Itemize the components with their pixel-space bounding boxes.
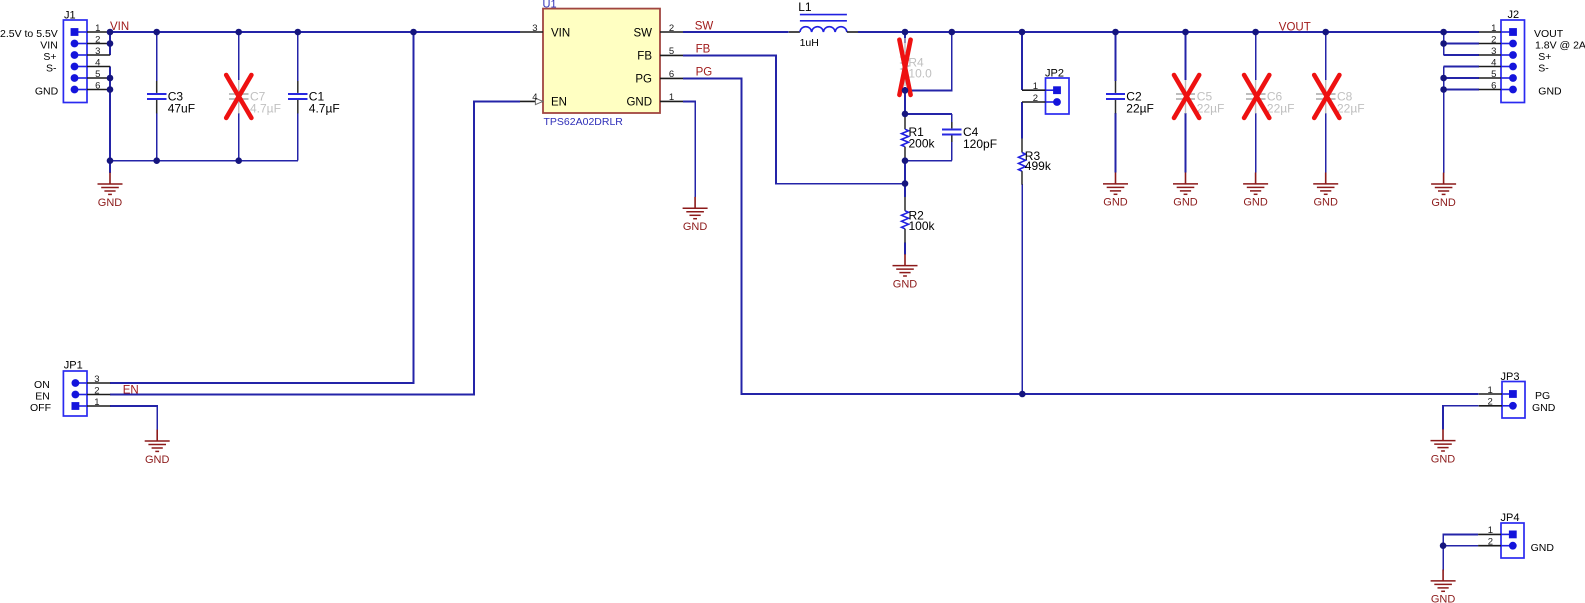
svg-text:4.7µF: 4.7µF <box>309 101 340 115</box>
ground C8 <box>1313 173 1338 209</box>
svg-text:S-: S- <box>1538 63 1549 75</box>
wire JP2 pin2 to R3 <box>1021 102 1023 139</box>
wire R4 top segment <box>904 32 906 43</box>
junction node VOUT at JP2 branch <box>1019 29 1026 36</box>
connector J1 <box>63 10 87 103</box>
ground JP4 <box>1431 570 1456 603</box>
ground J2 <box>1431 173 1456 209</box>
JP4 pin numbers <box>1488 525 1493 547</box>
svg-text:2.5V to 5.5V: 2.5V to 5.5V <box>0 28 58 40</box>
svg-text:J2: J2 <box>1508 9 1520 21</box>
svg-text:GND: GND <box>35 86 59 98</box>
svg-text:EN: EN <box>551 97 567 109</box>
svg-text:1.8V @ 2A: 1.8V @ 2A <box>1535 40 1585 52</box>
wire VOUT rail L1 to J2 <box>858 31 1479 33</box>
wire J2 pins 4-6 tie vertical to ground <box>1443 67 1445 173</box>
wire SW net U1 to L1 <box>683 31 789 33</box>
ground C6 <box>1243 173 1268 209</box>
capacitor C8 (DNP) <box>1316 80 1365 115</box>
svg-text:SW: SW <box>695 20 714 32</box>
svg-text:JP2: JP2 <box>1045 67 1064 79</box>
svg-text:U1: U1 <box>543 0 557 11</box>
junction node VIN at C1 <box>295 29 302 36</box>
capacitor C2 <box>1106 81 1154 115</box>
svg-text:4: 4 <box>532 92 537 103</box>
wire EN net JP1 pin2 to U1 EN <box>110 101 520 394</box>
svg-text:47uF: 47uF <box>168 101 195 115</box>
svg-text:2: 2 <box>1488 537 1493 548</box>
svg-text:VOUT: VOUT <box>1534 28 1564 40</box>
svg-text:1: 1 <box>94 397 99 408</box>
junction node R1 top <box>902 111 909 118</box>
wire J2 pin2 link <box>1444 43 1479 45</box>
svg-text:100k: 100k <box>909 219 936 233</box>
op-amp U1 TPS62A02DRLR body <box>543 0 661 128</box>
JP3 pin stubs <box>1479 394 1502 406</box>
JP3 side labels <box>1532 390 1556 414</box>
wire R2 top <box>904 184 906 197</box>
junction node VOUT at C6 <box>1252 29 1259 36</box>
wire PG net U1 to JP3 <box>683 78 1479 394</box>
svg-text:JP1: JP1 <box>64 359 83 371</box>
junction node J2 pin5 <box>1440 75 1447 82</box>
svg-text:EN: EN <box>123 384 139 396</box>
capacitor C1 <box>288 81 340 115</box>
wire C4 bottom drop <box>951 142 953 161</box>
junction node J1 pin5 <box>107 75 114 82</box>
svg-text:1: 1 <box>95 23 100 34</box>
U1 EN clock triangle <box>535 98 543 104</box>
U1 pin stubs <box>520 32 683 101</box>
connector JP2 <box>1045 67 1069 114</box>
wire JP3 pin2 to ground <box>1443 406 1479 430</box>
svg-text:5: 5 <box>95 69 100 80</box>
junction node input ground rail at C3 <box>153 157 160 164</box>
svg-text:499k: 499k <box>1025 159 1052 173</box>
svg-text:22µF: 22µF <box>1337 101 1365 115</box>
J1 side labels <box>0 28 59 98</box>
wire C5 top drop <box>1185 32 1187 80</box>
J1 pin stubs <box>87 32 110 90</box>
svg-text:JP4: JP4 <box>1501 512 1520 524</box>
connector JP3 <box>1501 371 1526 418</box>
svg-text:3: 3 <box>94 374 99 385</box>
wire C7 top drop <box>238 32 240 80</box>
svg-text:22µF: 22µF <box>1267 101 1295 115</box>
svg-text:1: 1 <box>1488 385 1493 396</box>
JP1 side labels <box>30 379 51 414</box>
wire J1 pins 1-3 tie vertical <box>109 32 111 55</box>
svg-text:1: 1 <box>1033 81 1038 92</box>
junction node VIN at C7 <box>235 29 242 36</box>
JP2 pin numbers <box>1033 81 1038 104</box>
svg-text:6: 6 <box>1491 80 1496 91</box>
resistor R1 <box>902 114 936 161</box>
U1 pin numbers <box>532 23 674 103</box>
wire R1 to FB node <box>904 161 906 184</box>
red X over C5 <box>1174 75 1199 118</box>
junction node input ground rail at C7 <box>235 157 242 164</box>
junction node VIN at J1 pin1 <box>107 29 114 36</box>
svg-text:GND: GND <box>1531 542 1555 554</box>
capacitor C4 <box>942 122 997 151</box>
net label FB <box>696 44 711 56</box>
wire U1 GND pin to ground <box>683 101 695 197</box>
resistor R3 <box>1019 139 1052 185</box>
junction node VOUT at R4 top <box>902 29 909 36</box>
wire R4 bypass <box>905 32 952 90</box>
junction node VOUT at C5 <box>1182 29 1189 36</box>
junction node VOUT at bypass <box>949 29 956 36</box>
red X over R4 <box>899 40 910 95</box>
wire JP4 pin1 link <box>1443 534 1478 545</box>
svg-text:J1: J1 <box>64 10 76 22</box>
junction node J2 pin2 <box>1440 40 1447 47</box>
wire J2 pin6 link <box>1444 89 1479 91</box>
svg-text:2: 2 <box>1488 397 1493 408</box>
wire R4 bottom to feedback node <box>904 87 906 114</box>
svg-text:PG: PG <box>1535 390 1550 402</box>
svg-text:VIN: VIN <box>551 28 570 40</box>
net label PG <box>696 67 713 79</box>
junction node VIN at C3 <box>153 29 160 36</box>
JP1 pin stubs <box>87 383 110 406</box>
svg-text:GND: GND <box>1532 402 1556 414</box>
wire FB net U1 to divider <box>683 55 905 183</box>
JP4 pin stubs <box>1478 534 1501 545</box>
wire JP1 pin1 OFF to ground <box>110 406 157 430</box>
svg-text:S+: S+ <box>1538 51 1551 63</box>
wire JP4 pin2 to ground <box>1443 546 1478 571</box>
svg-text:2: 2 <box>94 385 99 396</box>
svg-text:TPS62A02DRLR: TPS62A02DRLR <box>544 116 624 128</box>
wire C3 top drop <box>156 32 158 81</box>
svg-text:EN: EN <box>35 391 50 403</box>
svg-text:10.0: 10.0 <box>908 67 932 81</box>
inductor L1 <box>789 0 858 49</box>
svg-text:PG: PG <box>635 74 652 86</box>
J1 pin numbers <box>95 23 100 92</box>
wire R2 bottom to ground <box>904 243 906 255</box>
svg-text:SW: SW <box>633 28 652 40</box>
svg-text:OFF: OFF <box>30 402 51 414</box>
wire C4 top drop <box>951 114 953 122</box>
U1 pin names <box>551 28 652 109</box>
capacitor C5 (DNP) <box>1176 80 1225 115</box>
wire R1 C4 bottom tie <box>905 160 952 162</box>
svg-text:6: 6 <box>669 69 674 80</box>
svg-text:GND: GND <box>626 97 652 109</box>
wire J1 ground drop <box>109 161 111 173</box>
svg-text:3: 3 <box>532 23 537 34</box>
wire C2 top drop <box>1115 32 1117 81</box>
JP2 pin stubs <box>1022 90 1046 102</box>
svg-text:ON: ON <box>34 379 50 391</box>
J2 side labels <box>1534 28 1585 98</box>
svg-text:2: 2 <box>95 34 100 45</box>
JP3 pin numbers <box>1488 385 1493 408</box>
svg-text:S-: S- <box>46 63 57 75</box>
svg-text:5: 5 <box>1491 69 1496 80</box>
net label VOUT <box>1279 22 1311 34</box>
wire VIN rail from J1 to U1 <box>110 31 520 33</box>
wire C2 bottom drop <box>1115 113 1117 173</box>
net label SW <box>695 20 714 32</box>
svg-text:4: 4 <box>95 57 100 68</box>
ground JP3 <box>1431 429 1456 465</box>
svg-text:6: 6 <box>95 80 100 91</box>
JP1 pin numbers <box>94 374 99 408</box>
wire C5 bottom drop <box>1185 113 1187 173</box>
wire JP2 pin1 to VOUT rail <box>1021 32 1023 90</box>
wire C1 top drop <box>297 32 299 81</box>
svg-text:5: 5 <box>669 46 674 57</box>
resistor R4 (DNP) <box>902 38 933 86</box>
wire J2 pin4 link <box>1444 66 1479 68</box>
capacitor C6 (DNP) <box>1246 80 1295 115</box>
junction node R4 bottom <box>902 87 909 94</box>
wire C1 bottom drop <box>297 113 299 161</box>
junction node J2 pin6 <box>1440 86 1447 93</box>
junction node PG at R3 <box>1019 391 1026 398</box>
svg-text:1uH: 1uH <box>800 37 819 49</box>
wire C6 top drop <box>1255 32 1257 80</box>
ground JP1 <box>145 430 170 466</box>
wire R1 C4 top tie <box>905 113 952 115</box>
ground C2 <box>1103 173 1128 209</box>
wire JP1 pin3 ON to VIN rail <box>110 32 413 383</box>
J2 pin stubs <box>1479 32 1501 90</box>
wire J2 pins 1-3 tie vertical <box>1443 32 1445 55</box>
wire R3 bottom to PG net <box>1021 184 1023 394</box>
junction node VIN at JP1 branch <box>410 29 417 36</box>
wire C7 bottom drop <box>238 113 240 161</box>
junction node FB divider <box>902 180 909 187</box>
wire C8 bottom drop <box>1325 113 1327 173</box>
wire J2 pin5 link <box>1444 77 1479 79</box>
resistor R2 <box>902 197 936 243</box>
wire J1 pins 4-6 tie vertical down to ground rail <box>109 67 111 161</box>
svg-text:VIN: VIN <box>40 40 58 52</box>
junction node input ground rail at J1 <box>107 157 114 164</box>
svg-text:1: 1 <box>1488 525 1493 536</box>
svg-text:1: 1 <box>1491 23 1496 34</box>
capacitor C3 <box>147 81 195 115</box>
svg-text:4.7µF: 4.7µF <box>250 101 281 115</box>
svg-text:1: 1 <box>669 92 674 103</box>
svg-text:FB: FB <box>696 44 711 56</box>
svg-text:2: 2 <box>1033 93 1038 104</box>
wire input ground rail <box>110 160 298 162</box>
svg-text:2: 2 <box>669 23 674 34</box>
svg-text:22µF: 22µF <box>1197 101 1225 115</box>
capacitor C7 (DNP) <box>229 80 281 115</box>
junction node VOUT at C2 <box>1112 29 1119 36</box>
svg-text:120pF: 120pF <box>963 137 997 151</box>
svg-text:2: 2 <box>1491 34 1496 45</box>
net label EN <box>123 384 139 396</box>
svg-text:S+: S+ <box>43 51 56 63</box>
wire C3 bottom drop <box>156 113 158 161</box>
junction node J1 pin6 <box>107 86 114 93</box>
svg-text:200k: 200k <box>909 136 936 150</box>
connector JP1 <box>63 359 87 416</box>
junction node VOUT at J2 <box>1440 29 1447 36</box>
svg-text:JP3: JP3 <box>1501 371 1520 383</box>
wire J2 pin3 link <box>1444 54 1479 56</box>
connector J2 <box>1501 9 1525 103</box>
J2 pin numbers <box>1491 23 1496 92</box>
red X over C6 <box>1244 75 1269 118</box>
svg-text:3: 3 <box>1491 46 1496 57</box>
wire C6 bottom drop <box>1255 113 1257 173</box>
red X over C7 <box>226 75 251 118</box>
svg-text:VOUT: VOUT <box>1279 22 1311 34</box>
junction node R1 bottom <box>902 157 909 164</box>
ground J1 <box>98 173 123 209</box>
net label VIN <box>110 21 129 33</box>
red X over C8 <box>1314 75 1339 118</box>
svg-text:4: 4 <box>1491 57 1496 68</box>
svg-text:22µF: 22µF <box>1126 101 1154 115</box>
junction node VOUT at C8 <box>1322 29 1329 36</box>
wire C8 top drop <box>1325 32 1327 80</box>
junction node JP4 ground tie <box>1440 542 1447 549</box>
ground C5 <box>1173 173 1198 209</box>
ground U1 <box>683 197 708 233</box>
junction node J1 pin2 <box>107 40 114 47</box>
svg-text:L1: L1 <box>798 0 812 14</box>
connector JP4 <box>1501 512 1525 558</box>
svg-text:PG: PG <box>696 67 713 79</box>
svg-text:GND: GND <box>1538 86 1562 98</box>
JP4 side label <box>1531 542 1555 554</box>
svg-text:FB: FB <box>637 51 652 63</box>
ground R2 <box>893 254 918 290</box>
svg-text:3: 3 <box>95 46 100 57</box>
